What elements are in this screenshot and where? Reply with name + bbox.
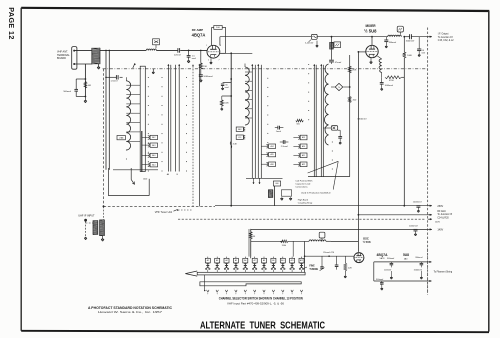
wire to osc grid [331, 241, 358, 243]
wire inter-wafer dashed [192, 66, 194, 206]
oscillator trimmer 5-20mmf [311, 34, 317, 39]
svg-text:PAGE 12: PAGE 12 [7, 7, 16, 40]
svg-text:A3: A3 [216, 259, 218, 262]
wire channel strip feed a [248, 229, 250, 257]
svg-text:1000mmf: 1000mmf [409, 225, 418, 227]
svg-text:1500mmf: 1500mmf [414, 269, 423, 271]
wire oscillator B+ branch [349, 55, 351, 177]
ground AGC branch [84, 97, 86, 100]
ground stub on boundary [152, 69, 154, 72]
contact dots S3 [308, 64, 309, 65]
svg-text:A22: A22 [302, 163, 305, 166]
injection coil L15 [388, 35, 402, 37]
svg-text:CHANNEL SELECTOR SWITCH SHOWN: CHANNEL SELECTOR SWITCH SHOWN IN CHANNEL… [219, 296, 303, 300]
wiper arrow W1 [131, 180, 134, 185]
dashed link T1 to boundary [103, 206, 105, 220]
contact dots S2 [267, 69, 268, 70]
wire RF input line [156, 49, 177, 51]
wire S2 bottom with wiper arrows [246, 177, 283, 179]
coil box A12 [150, 135, 157, 139]
wire osc heater line [305, 255, 355, 257]
ground mixer cathode [370, 58, 372, 61]
svg-text:A16: A16 [270, 163, 273, 166]
coil L3 RF wafer coil [126, 81, 130, 150]
wire 140V line [251, 228, 428, 230]
resistor 25K [348, 66, 351, 73]
wire channel strip feed b [292, 241, 294, 256]
ground under L1 [98, 64, 100, 66]
wire filament line bottom [374, 280, 428, 282]
strip left end lead [204, 275, 206, 290]
svg-text:A20: A20 [302, 145, 305, 148]
resistor 15K cathode [200, 50, 202, 52]
svg-text:300mmf: 300mmf [415, 257, 423, 259]
tube V3 oscillator half 5U8 [354, 253, 364, 263]
linkage frame bottom [113, 169, 158, 171]
svg-text:A11: A11 [291, 259, 294, 262]
svg-text:6: 6 [220, 45, 221, 47]
coil box A19 [300, 135, 307, 140]
svg-text:100K: 100K [407, 55, 412, 57]
svg-text:5U8: 5U8 [403, 253, 409, 257]
transformer T1 secondary [100, 220, 105, 236]
svg-text:FINE: FINE [309, 266, 315, 268]
capacitor 1.5mmf wafer feed [105, 77, 107, 79]
svg-text:1000mmf: 1000mmf [385, 85, 394, 87]
svg-text:A8: A8 [263, 259, 265, 262]
wire plate loop right [222, 26, 225, 28]
capacitor 56mmf shunt [418, 37, 420, 49]
svg-text:1000mmf: 1000mmf [203, 76, 213, 78]
capacitor 22mmf series [177, 48, 179, 53]
oscillator coil L14 [325, 64, 329, 145]
tube V2 mixer [366, 45, 378, 57]
wire mixer grid [358, 51, 360, 53]
terminal board TB1 [72, 47, 77, 70]
wire box600 to B+ line [274, 186, 276, 206]
svg-text:A12: A12 [152, 136, 155, 139]
wire oscillator box bottom [308, 176, 350, 178]
svg-text:1000mmf: 1000mmf [413, 202, 422, 204]
svg-text:1mmf: 1mmf [276, 131, 282, 133]
svg-text:Coupling Strap: Coupling Strap [298, 202, 313, 205]
coil box A14 [150, 163, 157, 167]
dashed boundary tuner unit bottom [104, 205, 216, 207]
svg-text:Capacitor Lead: Capacitor Lead [295, 182, 311, 185]
rotor arrow S1A [133, 64, 135, 68]
svg-text:Used In Production 54-0509-D: Used In Production 54-0509-D [301, 192, 331, 195]
osc adjust box [331, 126, 337, 131]
feedthrough capacitor 56mmf [223, 82, 232, 84]
svg-text:½ 5U8: ½ 5U8 [363, 240, 371, 244]
arrow 250V [427, 205, 431, 207]
svg-text:To Junction Of: To Junction Of [438, 36, 453, 39]
svg-text:I.F. Output: I.F. Output [438, 33, 449, 36]
svg-text:VHF Tuner Unit: VHF Tuner Unit [155, 211, 173, 214]
svg-text:To Filament String: To Filament String [434, 271, 453, 274]
resistor 100K with ground [222, 95, 231, 97]
channel coil box A11 [290, 258, 295, 263]
coil box A10 [150, 153, 157, 157]
channel coil box A4 [224, 258, 229, 263]
dashed boundary mid [178, 218, 425, 220]
switch wafer S3B lines [320, 65, 322, 177]
svg-text:A6: A6 [167, 173, 169, 176]
svg-text:A2: A2 [207, 259, 209, 262]
svg-text:A14: A14 [270, 145, 273, 148]
wire antenna top [74, 49, 92, 51]
svg-text:1000mmf: 1000mmf [406, 40, 415, 42]
svg-text:1: 1 [206, 45, 207, 47]
svg-text:C15, C32, & L2: C15, C32, & L2 [438, 40, 454, 42]
svg-text:mmf: mmf [192, 58, 196, 60]
wire strip feed c [304, 242, 306, 273]
svg-text:22mmf: 22mmf [174, 55, 181, 57]
svg-text:A12: A12 [300, 259, 303, 262]
transformer T1 UHF IF primary [93, 221, 98, 235]
svg-text:MIXER: MIXER [365, 24, 376, 28]
coil box A15 [269, 152, 276, 156]
wire grid bus segment 2 [317, 36, 388, 38]
coil box A16 [269, 162, 276, 166]
wire plate bus down [230, 53, 232, 205]
channel coil box A3 [215, 258, 220, 263]
coil box A14 [269, 144, 276, 148]
resistor 100 plate load [214, 26, 222, 30]
svg-text:A15: A15 [270, 153, 273, 156]
resistor 600 horizontal [296, 119, 304, 122]
svg-text:mmf: mmf [225, 87, 229, 89]
stator contacts row [207, 290, 208, 292]
capacitor 2.2mmf [280, 141, 283, 143]
ground T1 secondary [102, 236, 104, 238]
antenna coil L1 iron core [92, 48, 100, 64]
svg-text:7: 7 [219, 60, 220, 62]
ground RF tube cathode [210, 58, 212, 61]
wire filament line top [374, 261, 428, 263]
wire vertical bus b [108, 50, 110, 169]
oscillator padder coil L12 [331, 37, 333, 60]
coil box A13 [150, 143, 157, 147]
wafer bar [141, 131, 143, 172]
capacitor 1000mmf cathode bypass [200, 69, 202, 75]
capacitor heater bypass [336, 256, 338, 265]
svg-text:ALTERNATE TUNER SCHEMATIC: ALTERNATE TUNER SCHEMATIC [200, 321, 325, 332]
svg-text:3.4K: 3.4K [233, 144, 238, 146]
capacitor 1000mmf plate decoupling [381, 77, 383, 82]
svg-text:A10: A10 [152, 154, 155, 157]
channel coil box A10 [280, 258, 285, 263]
switch wafer S1A frame [140, 66, 145, 171]
capacitor 1.5mmf shunt with ground [188, 50, 190, 55]
svg-text:1.5mmf: 1.5mmf [111, 81, 118, 83]
wire fine tuning line [251, 240, 283, 242]
rotor bar 2 [200, 282, 301, 286]
IF output arrow [427, 36, 431, 38]
capacitor 1mmf [275, 127, 278, 129]
wire RF AGC line [358, 214, 427, 216]
coil boxes column top [236, 127, 243, 131]
capacitor 47mmf [329, 59, 334, 61]
svg-text:4BQ7A: 4BQ7A [192, 33, 206, 38]
svg-text:A21: A21 [302, 154, 305, 157]
wire terminal to AGC branch [84, 64, 86, 97]
svg-text:Connections: Connections [295, 185, 308, 188]
node osc line junction [403, 36, 405, 38]
fine tuning trimmer lead [321, 256, 323, 267]
svg-text:A14: A14 [152, 163, 155, 166]
resistor 4700 [385, 76, 401, 79]
svg-text:A19: A19 [302, 136, 305, 139]
contact dots S1C [186, 77, 187, 78]
coil box L7 [117, 136, 125, 140]
terminal UHF input [84, 219, 87, 222]
svg-text:A13: A13 [152, 144, 155, 147]
oscillator coil L4 [245, 67, 249, 125]
svg-text:To Junction Of: To Junction Of [437, 213, 452, 216]
svg-text:600: 600 [297, 123, 300, 125]
svg-text:600: 600 [276, 183, 279, 185]
wire inter-wafer [199, 66, 201, 206]
svg-text:BOARD: BOARD [57, 57, 66, 60]
svg-text:RF AMP: RF AMP [192, 28, 203, 32]
switch wafer S2A lines [251, 65, 253, 179]
svg-text:VHF Input Part #470-409-52/909: VHF Input Part #470-409-52/909-L, -5, & … [227, 302, 285, 306]
component box B1 [153, 39, 160, 45]
coil L16 with grounds [268, 190, 272, 198]
svg-text:15K: 15K [203, 66, 207, 68]
switch wafer S1C lines [175, 65, 177, 172]
coil box A22 [300, 162, 307, 167]
capacitor 390mmf with ground [385, 37, 387, 40]
wire mixer B+ vertical [403, 58, 405, 206]
wire L1 to RF line [100, 49, 146, 51]
coil box A20 [300, 144, 307, 149]
svg-text:High Band: High Band [298, 199, 309, 201]
svg-text:47mmf: 47mmf [335, 62, 342, 64]
svg-text:2.2mmf: 2.2mmf [281, 146, 288, 148]
wire antenna bottom [74, 63, 92, 65]
dotted boundary bottom right [427, 249, 429, 295]
svg-text:A10: A10 [281, 259, 284, 262]
arrow 140V [427, 228, 431, 230]
svg-text:½ 5U8: ½ 5U8 [364, 28, 377, 33]
svg-text:L13: L13 [238, 137, 241, 139]
svg-text:A4: A4 [225, 259, 227, 262]
resistor 1K [250, 229, 252, 232]
resistor 100K mixer [403, 37, 405, 52]
slug box L20A [319, 232, 325, 238]
switch wafer S2B lines [257, 65, 259, 179]
dashed boundary tuner unit top [103, 68, 428, 70]
coil L20A [309, 240, 326, 241]
svg-text:A6: A6 [244, 259, 246, 262]
dashed lead UHF input [85, 221, 87, 236]
diamond adjust symbol [335, 83, 343, 90]
svg-text:5-20mmf: 5-20mmf [305, 43, 314, 45]
wire grid bus to oscillator [220, 36, 312, 38]
channel coil box A2 [205, 258, 210, 263]
switch wafer S3A lines [313, 65, 315, 177]
svg-text:560mmf: 560mmf [63, 91, 71, 93]
svg-text:A9: A9 [272, 259, 274, 262]
component box 600 [273, 181, 280, 186]
svg-text:2: 2 [208, 60, 209, 62]
channel coil box A8 [262, 258, 267, 263]
resistor 22K [344, 256, 346, 263]
capacitor 500mmf with ground [390, 262, 392, 264]
svg-text:1000: 1000 [143, 179, 147, 181]
svg-text:A18: A18 [238, 128, 241, 131]
svg-text:TUNING: TUNING [309, 269, 318, 271]
contact dots S1A [148, 77, 149, 78]
wire 250V line [215, 205, 427, 207]
svg-text:4BQ7A: 4BQ7A [377, 253, 389, 257]
svg-text:100mmf: 100mmf [384, 269, 392, 271]
wire plate loop left [212, 26, 214, 28]
svg-text:mmf: mmf [421, 52, 425, 54]
coil L2 [146, 49, 156, 50]
mixer plate coil L13B [377, 56, 381, 59]
wire mixer bus vertical [357, 52, 359, 252]
rotor bar 1 [197, 272, 305, 275]
svg-text:25K: 25K [352, 69, 356, 71]
channel coil box A7 [252, 258, 257, 263]
svg-text:100K: 100K [224, 102, 229, 104]
svg-text:3300mmf: 3300mmf [357, 118, 367, 120]
callout line coil formed [308, 161, 339, 173]
svg-text:OSC: OSC [363, 237, 369, 241]
ground UHF input dashed [85, 237, 87, 238]
capacitor 560mmf [74, 88, 78, 90]
svg-text:4M: 4M [88, 85, 91, 87]
svg-text:A7: A7 [254, 259, 256, 262]
rotor bar arrow [185, 271, 197, 274]
wire mixer grid to bus [371, 37, 373, 46]
capacitor 1000mmf IF output [409, 34, 411, 39]
svg-text:140V: 140V [435, 222, 440, 224]
dashed boundary tuner right [427, 28, 429, 295]
svg-text:Coil Formed With: Coil Formed With [295, 179, 313, 182]
svg-text:UHF IF INPUT: UHF IF INPUT [78, 214, 95, 217]
switch wafer S1B lines [167, 65, 169, 172]
slug box L15 [397, 26, 403, 32]
svg-text:300mmf: 300mmf [376, 279, 384, 281]
channel coil box A6 [243, 258, 248, 263]
svg-text:390mmf: 390mmf [389, 42, 397, 44]
coil box A21 [300, 153, 307, 158]
svg-text:C34 & R20: C34 & R20 [437, 217, 449, 219]
resistor 200 [348, 97, 351, 103]
tube V1 RF amplifier 4BQ7A [207, 45, 220, 58]
channel coil box A12 [299, 258, 304, 263]
capacitor osc padder [339, 130, 341, 136]
svg-text:140V: 140V [437, 229, 443, 232]
loop wires AGC network [76, 78, 85, 80]
resistor 4M [84, 82, 87, 89]
dashed boundary tuner unit left [103, 69, 105, 207]
svg-text:Howard W. Sams & Co., Inc. 195: Howard W. Sams & Co., Inc. 1957 [98, 310, 163, 314]
page border frame [21, 8, 489, 11]
resistor 150K [281, 240, 289, 243]
svg-text:A5: A5 [235, 259, 237, 262]
svg-text:22mmf 470: 22mmf 470 [323, 252, 335, 254]
wire vertical bus a [105, 50, 107, 169]
svg-text:500mmf: 500mmf [387, 258, 395, 260]
channel coil box A5 [233, 258, 238, 263]
svg-text:RF AGC: RF AGC [437, 210, 446, 213]
channel coil box A9 [271, 258, 276, 263]
svg-text:22K: 22K [348, 267, 352, 269]
svg-text:250V: 250V [437, 205, 443, 208]
